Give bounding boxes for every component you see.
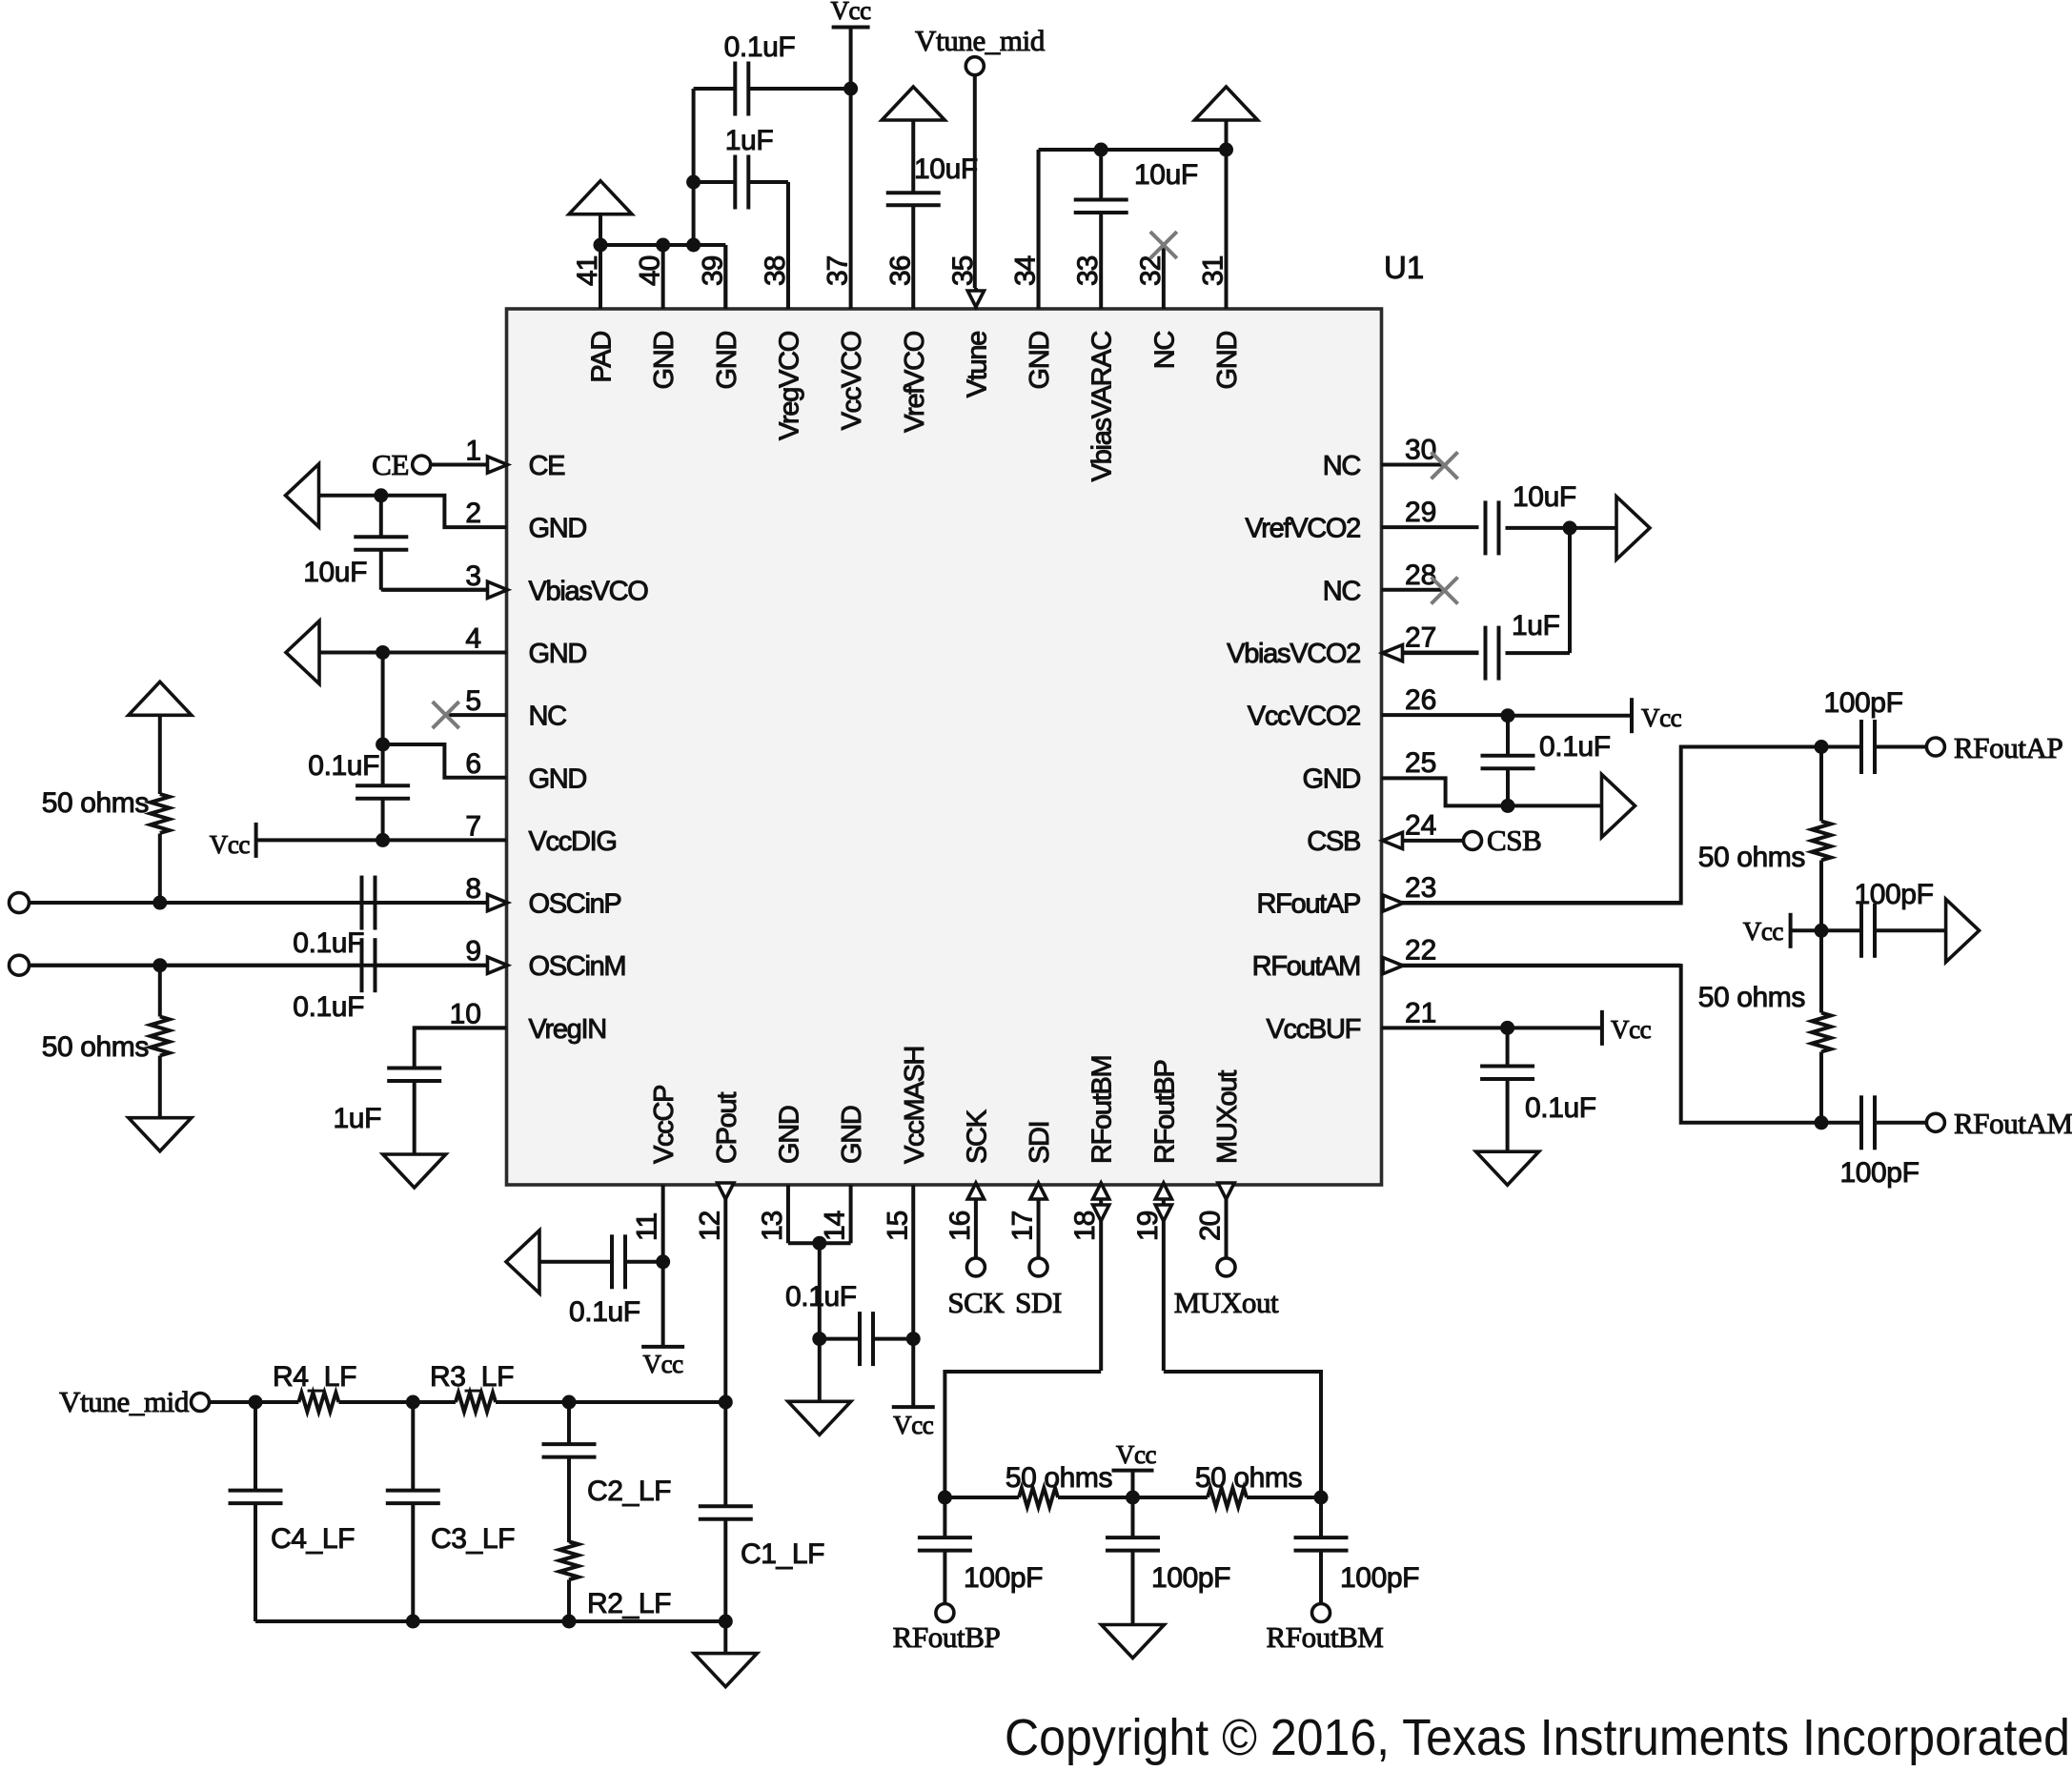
junction dot RFoutBP node — [938, 1491, 952, 1505]
junction dot VrefVCO2 — [1563, 520, 1577, 535]
junction dot VccVCO2 — [1501, 708, 1515, 723]
pin 38 (VregVCO) top stub+number+name — [760, 182, 805, 440]
pin 26 (VccVCO2) right stub+number+name — [1248, 684, 1508, 732]
pin 5 (NC) left stub+number+name — [444, 685, 566, 732]
svg-text:50 ohms: 50 ohms — [42, 1031, 149, 1063]
svg-text:CE: CE — [529, 451, 566, 481]
capacitor 100pF (RFoutBP) — [918, 1497, 1043, 1604]
pin 28 (NC) right stub+number+name — [1323, 560, 1445, 607]
pin 12 (CPout) bottom stub+number+name — [694, 1092, 742, 1402]
svg-text:GND: GND — [649, 332, 680, 390]
svg-text:8: 8 — [465, 873, 481, 905]
wire OSCinP — [29, 901, 486, 905]
svg-text:100pF: 100pF — [1151, 1562, 1230, 1594]
junction dot OSCinM — [152, 958, 167, 972]
svg-text:0.1uF: 0.1uF — [293, 991, 364, 1023]
Vcc bar pin 7 — [210, 823, 256, 859]
svg-text:50 ohms: 50 ohms — [1698, 842, 1805, 873]
wire pin 4 GND — [319, 650, 507, 654]
svg-text:CE: CE — [372, 448, 409, 481]
svg-text:0.1uF: 0.1uF — [724, 31, 796, 63]
svg-text:CSB: CSB — [1487, 824, 1541, 857]
junction dot pin 7 — [376, 833, 390, 847]
junction dot loop filter node C — [562, 1395, 577, 1410]
junction dot pin 4 — [376, 645, 390, 660]
resistor 50 ohms (RFoutBM) — [1133, 1462, 1322, 1507]
svg-text:29: 29 — [1405, 497, 1436, 528]
svg-text:NC: NC — [1149, 332, 1180, 370]
svg-text:Vtune_mid: Vtune_mid — [915, 24, 1046, 57]
Vcc bar pin 21 — [1602, 1010, 1652, 1046]
svg-text:7: 7 — [465, 810, 481, 842]
junction dots loop filter bottom rail — [406, 1615, 733, 1629]
svg-text:21: 21 — [1405, 997, 1436, 1028]
svg-text:NC: NC — [529, 702, 567, 732]
svg-text:2: 2 — [465, 498, 481, 529]
svg-text:33: 33 — [1072, 255, 1104, 286]
ground symbol below OSCinM resistor — [129, 1118, 192, 1151]
junction dot pins 13/14 — [812, 1236, 826, 1251]
capacitor 100pF (mid) with ground — [1821, 879, 1980, 962]
resistor R2_LF — [559, 1541, 671, 1621]
svg-text:VbiasVARAC: VbiasVARAC — [1087, 332, 1118, 482]
svg-text:32: 32 — [1135, 255, 1167, 286]
pin 4 (GND) left stub+number+name — [383, 622, 587, 669]
capacitor 0.1uF (OSCinP) — [293, 876, 375, 959]
junction dots top rail — [594, 238, 701, 253]
svg-text:U1: U1 — [1384, 250, 1424, 285]
capacitor 0.1uF (VccCP) with ground — [506, 1231, 663, 1328]
wire node C to pin 12 column — [569, 1400, 725, 1404]
terminal OSCinP — [10, 893, 30, 913]
arrow input pin 24 CSB — [1383, 832, 1403, 848]
svg-text:30: 30 — [1405, 435, 1436, 466]
pin 21 (VccBUF) right stub+number+name — [1266, 997, 1507, 1045]
IC U1 reference designator — [1384, 250, 1424, 285]
svg-text:GND: GND — [1212, 332, 1243, 390]
resistor R3_LF — [413, 1361, 569, 1412]
pin 9 (OSCinM) left stub+number+name — [30, 936, 625, 982]
svg-text:RFoutAM: RFoutAM — [1954, 1107, 2072, 1140]
svg-text:MUXout: MUXout — [1174, 1286, 1279, 1319]
arrow input pin 35 Vtune — [967, 291, 984, 307]
svg-text:RFoutAP: RFoutAP — [1256, 889, 1360, 920]
capacitor C1_LF — [699, 1402, 824, 1621]
terminal MUXout — [1174, 1258, 1279, 1319]
wire GND column 13/14 — [818, 1243, 822, 1401]
terminal RFoutBP — [893, 1604, 1001, 1655]
capacitor 100pF (RFoutBM) — [1294, 1497, 1420, 1604]
svg-text:Vcc: Vcc — [893, 1411, 934, 1439]
ground symbol pin 4 — [286, 621, 319, 683]
pin 10 (VregIN) left stub+number+name — [415, 998, 606, 1045]
pin 17 (SDI) bottom stub+number+name — [1007, 1122, 1056, 1257]
terminal CE — [372, 448, 431, 481]
junction dot RFoutAM node — [1815, 1115, 1829, 1130]
capacitor C2_LF — [542, 1402, 672, 1542]
arrow output pin 23 RFoutAP — [1383, 895, 1403, 911]
wire pin 24 to CSB terminal — [1403, 839, 1463, 843]
svg-text:VbiasVCO2: VbiasVCO2 — [1227, 639, 1360, 669]
junction dot 0.1uF VccMASH left — [812, 1332, 826, 1346]
svg-text:3: 3 — [465, 560, 481, 592]
svg-text:GND: GND — [529, 763, 587, 794]
arrow input pin 1 CE — [488, 457, 508, 473]
svg-text:27: 27 — [1405, 621, 1436, 653]
arrow output pin 12 CPout — [718, 1183, 734, 1199]
svg-text:RFoutAP: RFoutAP — [1954, 731, 2062, 764]
svg-text:VccVCO2: VccVCO2 — [1248, 702, 1360, 732]
svg-text:20: 20 — [1195, 1211, 1227, 1241]
svg-text:GND: GND — [529, 514, 587, 544]
junction dot VccMASH — [906, 1332, 921, 1346]
Vcc bar output network — [1743, 913, 1821, 948]
wire pin 22 to output network — [1403, 966, 1821, 1123]
copyright text — [1005, 1709, 2070, 1766]
pin 1 (CE) left stub+number+name — [432, 436, 566, 482]
pin 13 (GND) bottom stub+number+name — [757, 1106, 805, 1243]
wire pin 6 GND jog — [383, 744, 507, 778]
wire pin34-33-31 rail — [1039, 150, 1227, 309]
wire OSCinM — [29, 964, 486, 967]
svg-text:GND: GND — [712, 332, 742, 390]
capacitor 0.1uF (VccMASH) — [785, 1281, 913, 1366]
capacitor 0.1uF (VccVCO2) — [1481, 716, 1611, 806]
resistor R4_LF — [255, 1361, 413, 1412]
svg-text:10: 10 — [450, 998, 481, 1029]
svg-text:R4_LF: R4_LF — [273, 1361, 356, 1393]
wire left bypass column — [381, 652, 385, 785]
junction dot RFoutB Vcc node — [1126, 1491, 1140, 1505]
ground symbol above pin 41 — [569, 181, 632, 245]
svg-text:Vcc: Vcc — [1743, 917, 1784, 946]
svg-text:50 ohms: 50 ohms — [1195, 1462, 1302, 1494]
svg-text:14: 14 — [820, 1211, 851, 1241]
svg-text:100pF: 100pF — [1340, 1562, 1419, 1594]
svg-text:VccBUF: VccBUF — [1266, 1014, 1360, 1045]
ground symbol pin 25 — [1602, 774, 1635, 837]
svg-text:31: 31 — [1198, 255, 1229, 286]
pin 40 (GND) top stub+number+name — [635, 245, 681, 390]
svg-text:Vcc: Vcc — [210, 830, 251, 859]
svg-text:50 ohms: 50 ohms — [42, 787, 149, 819]
svg-text:6: 6 — [465, 748, 481, 780]
svg-text:4: 4 — [465, 622, 481, 654]
pin 27 (VbiasVCO2) right stub+number+name — [1227, 621, 1478, 669]
arrow bidir pin 18 RFoutBM — [1093, 1183, 1109, 1221]
wire Vtune_mid to node — [210, 1400, 255, 1404]
terminal Vtune_mid (loop filter) — [59, 1385, 209, 1418]
svg-text:GND: GND — [837, 1106, 867, 1164]
svg-text:Vcc: Vcc — [643, 1350, 684, 1378]
capacitor 100pF (RFoutAM) — [1821, 1095, 1927, 1189]
no-connect cross pin 28 — [1432, 578, 1458, 604]
svg-text:VregVCO: VregVCO — [774, 331, 804, 440]
terminal Vtune_mid (top) — [915, 24, 1046, 288]
junction dot RFoutBM node — [1314, 1491, 1329, 1505]
svg-text:0.1uF: 0.1uF — [1539, 731, 1611, 763]
svg-text:1uF: 1uF — [1512, 610, 1560, 641]
pin 14 (GND) bottom stub+number+name — [820, 1106, 868, 1243]
svg-text:9: 9 — [465, 936, 481, 967]
wire loop filter bottom rail — [255, 1619, 725, 1623]
junction dot OSCinP — [152, 896, 167, 910]
svg-text:R2_LF: R2_LF — [587, 1588, 671, 1619]
arrow input pin 3 VbiasVCO — [488, 581, 508, 598]
svg-text:41: 41 — [572, 255, 603, 286]
pin 36 (VrefVCO) top stub+number+name — [884, 207, 930, 433]
arrow bidir pin 19 RFoutBP — [1155, 1183, 1171, 1221]
svg-text:100pF: 100pF — [1839, 1157, 1919, 1189]
svg-text:VrefVCO: VrefVCO — [900, 331, 930, 433]
pin 30 (NC) right stub+number+name — [1323, 435, 1445, 482]
resistor 50 ohms (lower) — [1698, 930, 1831, 1123]
capacitor 1uF (VregVCO) — [694, 125, 788, 309]
svg-text:100pF: 100pF — [1854, 879, 1933, 910]
svg-text:OSCinP: OSCinP — [529, 889, 621, 920]
svg-text:SDI: SDI — [1015, 1286, 1062, 1319]
svg-text:NC: NC — [1323, 451, 1361, 481]
svg-text:Vtune_mid: Vtune_mid — [59, 1385, 190, 1418]
capacitor C4_LF — [229, 1402, 355, 1621]
svg-text:VccCP: VccCP — [649, 1086, 680, 1164]
pin 6 (GND) left stub+number+name — [465, 748, 586, 795]
capacitor 10uF (VrefVCO) with ground — [882, 87, 978, 205]
svg-text:26: 26 — [1405, 684, 1436, 716]
wire VrefVCO2 to 1uF — [1568, 528, 1572, 653]
svg-text:RFoutBP: RFoutBP — [893, 1620, 1001, 1654]
junction dot 1uF — [686, 175, 701, 190]
terminal SCK — [947, 1258, 1005, 1319]
junction dot pin 11 — [656, 1254, 670, 1269]
svg-text:5: 5 — [465, 685, 481, 717]
svg-text:1: 1 — [465, 436, 481, 467]
resistor 50 ohms (RFoutBP) — [945, 1462, 1132, 1507]
pin 31 (GND) top stub+number+name — [1198, 150, 1244, 390]
wire pins 13-14 GND tie — [788, 1241, 851, 1245]
junction dot pin 21 — [1500, 1021, 1514, 1035]
wire pin 18 to RFoutBP node — [945, 1372, 1101, 1497]
capacitor C3_LF — [386, 1402, 515, 1621]
svg-text:MUXout: MUXout — [1212, 1070, 1243, 1164]
svg-text:VbiasVCO: VbiasVCO — [529, 576, 649, 606]
pin 2 (GND) left stub+number+name — [465, 498, 586, 544]
svg-text:50 ohms: 50 ohms — [1698, 982, 1805, 1013]
svg-text:23: 23 — [1405, 872, 1436, 904]
svg-text:50 ohms: 50 ohms — [1006, 1462, 1112, 1494]
capacitor 0.1uF (VccDIG) — [308, 750, 410, 840]
capacitor 0.1uF (VccVCO) — [694, 31, 851, 116]
capacitor 10uF (VbiasVCO) — [303, 496, 507, 590]
svg-text:RFoutBM: RFoutBM — [1267, 1620, 1384, 1654]
pin 24 (CSB) right stub+number+name — [1307, 809, 1436, 857]
terminal RFoutAM — [1926, 1107, 2072, 1140]
svg-text:RFoutBM: RFoutBM — [1087, 1056, 1118, 1164]
terminal OSCinM — [10, 955, 30, 975]
junction dot Vcc output node — [1815, 924, 1829, 938]
wire pin 2 GND jog — [319, 496, 507, 527]
junction dot loop filter node A — [249, 1395, 263, 1410]
pin 33 (VbiasVARAC) top stub+number+name — [1072, 213, 1118, 481]
Vcc bar pin 11 — [641, 1262, 684, 1378]
pin 41 (PAD) top stub+number+name — [572, 245, 618, 383]
svg-text:RFoutBP: RFoutBP — [1149, 1060, 1180, 1164]
ground symbol above OSCinP resistor — [129, 682, 192, 715]
svg-text:Vcc: Vcc — [1641, 703, 1682, 732]
svg-text:VregIN: VregIN — [529, 1014, 606, 1045]
svg-text:24: 24 — [1405, 809, 1436, 841]
svg-text:VccVCO: VccVCO — [837, 331, 867, 430]
resistor 50 ohms (OSCinM) — [42, 966, 170, 1118]
svg-text:SDI: SDI — [1025, 1122, 1055, 1164]
arrow input pin 9 OSCinM — [488, 957, 508, 973]
svg-text:100pF: 100pF — [964, 1562, 1043, 1594]
pin 23 (RFoutAP) right stub+number+name — [1256, 872, 1680, 920]
terminal RFoutAP — [1926, 731, 2062, 764]
no-connect cross pin 5 — [433, 702, 459, 728]
ground symbol loop filter — [694, 1621, 757, 1687]
svg-text:15: 15 — [882, 1211, 913, 1241]
svg-text:C2_LF: C2_LF — [587, 1476, 671, 1507]
svg-text:SCK: SCK — [947, 1286, 1005, 1319]
wire pin 19 to RFoutBM node — [1164, 1372, 1321, 1497]
svg-text:1uF: 1uF — [334, 1103, 382, 1134]
svg-text:10uF: 10uF — [1513, 481, 1576, 513]
svg-text:VccMASH: VccMASH — [900, 1047, 930, 1164]
arrow input pin 27 VbiasVCO2 — [1383, 645, 1403, 662]
arrow input pin 16 SCK — [967, 1183, 984, 1199]
svg-text:GND: GND — [1302, 763, 1360, 794]
svg-text:100pF: 100pF — [1823, 687, 1902, 719]
pin 34 (GND) top stub+number+name — [1010, 150, 1056, 390]
pin 39 (GND) top stub+number+name — [697, 245, 742, 390]
junction dot RFoutAP node — [1815, 740, 1829, 754]
capacitor 1uF (VbiasVCO2) — [1404, 610, 1570, 681]
svg-text:VccDIG: VccDIG — [529, 826, 617, 857]
svg-text:GND: GND — [774, 1106, 804, 1164]
svg-text:0.1uF: 0.1uF — [293, 927, 364, 959]
pin 11 (VccCP) bottom stub+number+name — [632, 1086, 681, 1262]
svg-text:16: 16 — [945, 1211, 976, 1241]
capacitor 0.1uF (VccBUF) with ground — [1476, 1028, 1596, 1185]
pin 37 (VccVCO) top stub+number+name — [823, 255, 868, 430]
wire pin 23 to output network — [1403, 747, 1821, 904]
pin 15 (VccMASH) bottom stub+number+name — [882, 1047, 930, 1339]
wire pin 25 GND jog — [1382, 778, 1602, 805]
Vcc rail pin 37 — [832, 28, 870, 310]
svg-text:0.1uF: 0.1uF — [569, 1296, 640, 1328]
capacitor 100pF (RFoutB mid) with ground — [1102, 1497, 1231, 1659]
junction dot jog pin 6 — [376, 738, 390, 752]
wire pin 21 to Vcc — [1508, 1026, 1602, 1029]
svg-text:13: 13 — [757, 1211, 788, 1241]
no-connect cross pin 30 — [1432, 452, 1458, 478]
wire riser to bypass caps — [692, 89, 696, 245]
junction dot pin2/10uF — [374, 488, 388, 502]
svg-text:0.1uF: 0.1uF — [308, 750, 379, 782]
wire pin41-40-39 top rail — [600, 245, 725, 309]
ground symbol pin 2 — [286, 464, 319, 527]
pin 29 (VrefVCO2) right stub+number+name — [1245, 497, 1478, 544]
svg-text:Vtune: Vtune — [962, 332, 992, 397]
Vcc bar pin 26 — [1632, 698, 1682, 733]
svg-text:R3_LF: R3_LF — [430, 1361, 514, 1393]
svg-text:28: 28 — [1405, 560, 1436, 591]
ground symbol right of 10uF — [1570, 497, 1650, 560]
junction dot loop filter node B — [406, 1395, 420, 1410]
pin 19 (RFoutBP) bottom stub+number+name — [1132, 1060, 1181, 1371]
pin 25 (GND) right stub+number+name — [1302, 747, 1436, 795]
svg-text:0.1uF: 0.1uF — [785, 1281, 857, 1313]
arrow input pin 8 OSCinP — [488, 894, 508, 910]
svg-text:1uF: 1uF — [725, 125, 774, 156]
arrow output pin 20 MUXout — [1218, 1183, 1234, 1199]
svg-text:12: 12 — [694, 1211, 725, 1241]
svg-text:10uF: 10uF — [914, 153, 978, 185]
arrow output pin 22 RFoutAM — [1383, 958, 1403, 974]
svg-text:CSB: CSB — [1307, 826, 1360, 857]
pin 18 (RFoutBM) bottom stub+number+name — [1069, 1056, 1118, 1371]
no-connect cross pin 32 — [1150, 232, 1177, 258]
svg-text:OSCinM: OSCinM — [529, 951, 626, 982]
svg-text:Vcc: Vcc — [1611, 1015, 1652, 1044]
svg-text:SCK: SCK — [962, 1109, 992, 1164]
svg-text:22: 22 — [1405, 935, 1436, 967]
pin 32 (NC) top stub+number+name — [1135, 245, 1181, 369]
svg-text:11: 11 — [632, 1213, 663, 1241]
wire pin 26 VccVCO2 — [1508, 714, 1632, 718]
capacitor 100pF (RFoutAP) — [1821, 687, 1927, 774]
svg-text:25: 25 — [1405, 747, 1436, 779]
pin 20 (MUXout) bottom stub+number+name — [1195, 1070, 1244, 1257]
Vcc bar RFoutB network — [1112, 1440, 1157, 1497]
svg-text:0.1uF: 0.1uF — [1525, 1092, 1596, 1124]
junction dots top-right rail — [1094, 143, 1233, 157]
pin 35 (Vtune) top stub+number+name — [947, 255, 993, 397]
svg-text:C4_LF: C4_LF — [271, 1523, 355, 1555]
svg-text:PAD: PAD — [587, 332, 618, 383]
junction dot pin 25 rail — [1501, 799, 1515, 813]
svg-text:Copyright © 2016, Texas Instru: Copyright © 2016, Texas Instruments Inco… — [1005, 1709, 2070, 1766]
svg-text:NC: NC — [1323, 576, 1361, 606]
svg-text:VrefVCO2: VrefVCO2 — [1245, 514, 1360, 544]
svg-text:Vcc: Vcc — [1116, 1440, 1157, 1469]
svg-text:RFoutAM: RFoutAM — [1252, 951, 1360, 982]
arrow input pin 17 SDI — [1030, 1183, 1046, 1199]
svg-text:40: 40 — [635, 255, 666, 286]
Vcc bar pin 15 — [892, 1339, 935, 1439]
svg-text:CPout: CPout — [712, 1092, 742, 1164]
terminal RFoutBM — [1267, 1604, 1384, 1655]
pin 22 (RFoutAM) right stub+number+name — [1252, 935, 1681, 982]
capacitor 0.1uF (OSCinM) — [293, 938, 375, 1023]
svg-text:C1_LF: C1_LF — [741, 1538, 824, 1570]
svg-text:17: 17 — [1007, 1211, 1039, 1241]
capacitor 10uF (VrefVCO2) — [1486, 481, 1576, 555]
resistor 50 ohms (OSCinP) — [42, 715, 170, 903]
capacitor 10uF (VbiasVARAC) — [1074, 150, 1198, 213]
resistor 50 ohms (upper) — [1698, 747, 1831, 931]
svg-text:GND: GND — [1025, 332, 1055, 390]
ground symbol below pins 13/14 — [788, 1401, 851, 1435]
svg-text:Vcc: Vcc — [830, 0, 871, 25]
pin 3 (VbiasVCO) left stub+number+name — [383, 560, 649, 607]
svg-text:10uF: 10uF — [303, 557, 367, 588]
capacitor 1uF (VregIN) with ground — [334, 1028, 507, 1188]
junction dot loop filter node D (CPout) — [719, 1395, 733, 1410]
terminal SDI — [1015, 1258, 1062, 1319]
pin 7 (VccDIG) left stub+number+name — [256, 810, 617, 857]
